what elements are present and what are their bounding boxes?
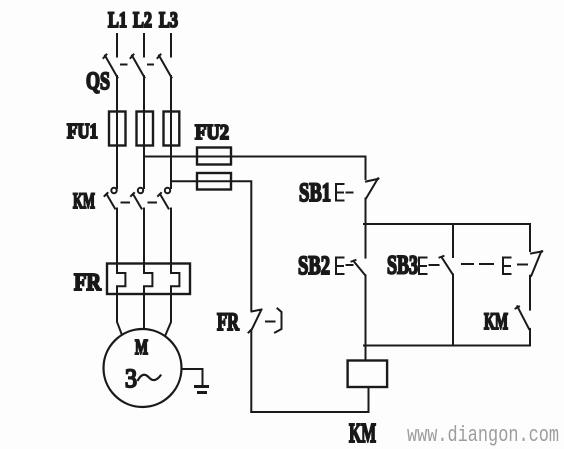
switch QS pole 1 bbox=[104, 55, 118, 78]
pushbutton SB2 link dash bbox=[347, 264, 353, 266]
ground wire bbox=[182, 369, 203, 386]
motor M1 label M bbox=[135, 335, 148, 359]
fuse FU1 phase 2 bbox=[137, 112, 154, 146]
wire FU1 to KM phase 2 (tap to FU2 at y157) bbox=[143, 145, 145, 188]
contactor KM main label bbox=[73, 188, 95, 213]
wire FU2 upper to SB1 column bbox=[231, 157, 366, 180]
pushbutton SB3 NO contact bbox=[440, 256, 453, 275]
contactor KM aux NO contact bbox=[516, 306, 530, 329]
wire FU1 to KM phase 1 bbox=[116, 145, 118, 188]
thermal relay FR heater element 1 bbox=[117, 263, 125, 294]
thermal relay FR contact tail bbox=[266, 309, 282, 333]
node rail B (bottom) bbox=[364, 345, 530, 347]
switch QS pole 3 bbox=[158, 55, 172, 78]
ground symbol bbox=[196, 387, 208, 393]
motor M1 label 3~ bbox=[125, 364, 161, 393]
svg-text:SB1: SB1 bbox=[299, 178, 331, 207]
pushbutton SB2 actuator E bbox=[336, 258, 344, 275]
wire rail A to SB3 bbox=[452, 224, 454, 257]
wire rail A to linked NC contact bbox=[529, 224, 531, 251]
node L2 bbox=[133, 7, 152, 32]
svg-text:FR: FR bbox=[217, 309, 240, 336]
contactor KM aux label bbox=[484, 309, 508, 334]
linked actuator E bbox=[503, 258, 511, 275]
wire L2 drop to QS bbox=[143, 34, 145, 57]
wire L3 drop to QS bbox=[170, 34, 172, 57]
svg-text:M: M bbox=[135, 335, 148, 359]
wire SB2 to rail B bbox=[365, 275, 367, 360]
thermal relay FR NC contact bbox=[249, 310, 262, 333]
pushbutton SB1 link dash bbox=[347, 192, 353, 194]
wire SB1 to rail A bbox=[365, 199, 367, 225]
motor M1 circle bbox=[104, 329, 182, 407]
wire KM to FR phase 1 bbox=[116, 209, 118, 264]
pushbutton SB2 label bbox=[298, 251, 330, 280]
pushbutton SB3 actuator E bbox=[419, 258, 427, 275]
thermal relay FR heater box bbox=[107, 264, 190, 295]
contactor KM main contact 1 bbox=[105, 188, 117, 209]
node L1 bbox=[108, 7, 127, 32]
fuse FU2 upper bbox=[197, 148, 231, 165]
svg-text:3: 3 bbox=[125, 364, 137, 393]
wire bottom return bbox=[251, 411, 368, 413]
coil KM label bbox=[349, 418, 376, 448]
thermal relay FR label bbox=[74, 270, 102, 296]
wire KM to FR phase 2 bbox=[143, 209, 145, 264]
node rail A (top) bbox=[364, 223, 530, 225]
svg-text:KM: KM bbox=[349, 418, 376, 448]
node L3 bbox=[159, 7, 178, 32]
svg-text:SB3: SB3 bbox=[387, 251, 418, 280]
wire QS to FU1 phase 2 bbox=[143, 76, 145, 112]
linkage SB3 to NC contact (dashed) bbox=[462, 263, 527, 266]
watermark www.diangon.com bbox=[407, 423, 559, 448]
svg-text:L1: L1 bbox=[108, 7, 127, 32]
svg-text:www.diangon.com: www.diangon.com bbox=[407, 423, 559, 448]
svg-text:FU1: FU1 bbox=[67, 119, 98, 143]
svg-text:FR: FR bbox=[74, 270, 102, 296]
wire rail A to SB2 bbox=[365, 224, 367, 258]
wire L3 tap to FU2 lower bbox=[171, 180, 197, 182]
switch QS linkage (dashed) bbox=[121, 64, 153, 66]
svg-text:FU2: FU2 bbox=[195, 120, 229, 144]
thermal relay FR heater element 3 bbox=[171, 263, 179, 294]
switch QS pole 2 bbox=[131, 55, 145, 78]
wire FR contact to bottom wire bbox=[250, 331, 252, 413]
pushbutton SB3 NC linked contact bbox=[531, 250, 543, 276]
fuse FU2 lower bbox=[197, 173, 231, 190]
wire NC contact to KM aux bbox=[529, 276, 531, 310]
wire FR to motor phase 3 bbox=[166, 294, 172, 335]
wire FR to motor phase 2 bbox=[143, 294, 145, 329]
wire QS to FU1 phase 3 bbox=[170, 76, 172, 112]
wire FR to motor phase 1 bbox=[117, 294, 122, 335]
coil KM bbox=[348, 361, 388, 388]
coil KM top stub bbox=[365, 346, 367, 361]
fuse FU1 phase 3 bbox=[164, 112, 180, 146]
pushbutton SB2 NO contact bbox=[352, 260, 366, 275]
fuse FU1 label bbox=[67, 119, 98, 143]
svg-text:QS: QS bbox=[86, 68, 110, 95]
contactor KM main contact 3 bbox=[158, 188, 170, 209]
pushbutton SB1 label bbox=[299, 178, 331, 207]
switch QS label bbox=[86, 68, 110, 95]
thermal relay FR control label bbox=[217, 309, 240, 336]
svg-text:KM: KM bbox=[73, 188, 95, 213]
svg-text:L3: L3 bbox=[159, 7, 178, 32]
wire QS to FU1 phase 1 bbox=[116, 76, 118, 112]
fuse FU1 phase 1 bbox=[109, 112, 126, 146]
svg-text:L2: L2 bbox=[133, 7, 152, 32]
svg-text:KM: KM bbox=[484, 309, 508, 334]
contactor KM main contact 2 bbox=[131, 188, 143, 209]
pushbutton SB1 actuator E bbox=[336, 184, 344, 201]
svg-text:SB2: SB2 bbox=[298, 251, 330, 280]
pushbutton SB3 link dash bbox=[430, 264, 439, 266]
wire L2 tap to FU2 upper bbox=[144, 156, 197, 158]
fuse FU2 label bbox=[195, 120, 229, 144]
wire SB3 to rail B bbox=[452, 275, 454, 346]
wire FU1 to KM phase 3 (tap to FU2 at y181) bbox=[170, 145, 172, 188]
wire KM aux to rail B bbox=[529, 329, 531, 346]
wire L1 drop to QS bbox=[116, 34, 118, 57]
contactor KM linkage (dashed) bbox=[122, 202, 157, 204]
wire coil KM bottom bbox=[368, 387, 370, 412]
pushbutton SB3 label bbox=[387, 251, 418, 280]
wire FU2 lower to FR contact column bbox=[231, 181, 251, 310]
wire KM to FR phase 3 bbox=[170, 209, 172, 264]
thermal relay FR heater element 2 bbox=[144, 263, 152, 294]
pushbutton SB1 NC contact bbox=[366, 177, 380, 198]
